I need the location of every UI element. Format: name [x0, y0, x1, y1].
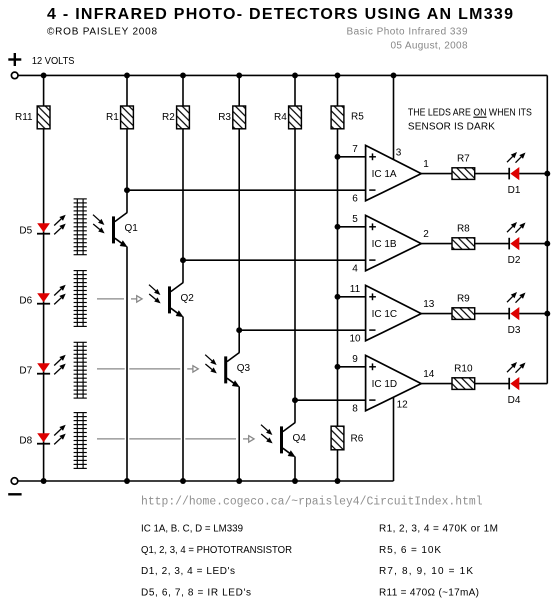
- wire Q3 emitter column lower: [238, 387, 240, 482]
- wire ground bottom rail: [18, 480, 393, 482]
- junction top rail / R5 column: [335, 72, 341, 78]
- resistor R4: [289, 106, 302, 129]
- junction right rail / D3: [544, 311, 550, 317]
- svg-text:R11 = 470Ω (~17mA): R11 = 470Ω (~17mA): [379, 587, 479, 598]
- svg-text:05 August, 2008: 05 August, 2008: [391, 40, 468, 51]
- LED D2: [509, 237, 519, 250]
- light path line row 4: [97, 438, 236, 440]
- junction top rail / R3 column: [236, 72, 242, 78]
- svg-text:D5: D5: [19, 226, 32, 237]
- svg-text:D8: D8: [19, 436, 32, 447]
- wire - input IC1B: [183, 259, 366, 261]
- svg-text:3: 3: [396, 147, 402, 158]
- wire R9 to D3: [475, 313, 510, 315]
- svg-text:D1: D1: [508, 185, 521, 196]
- resistor R11: [37, 106, 50, 129]
- LED D3: [509, 307, 519, 320]
- op-amp IC 1B: [366, 215, 422, 270]
- junction Q3 collector / comparator input: [236, 327, 242, 333]
- transistor Q2 (phototransistor): [170, 283, 184, 318]
- junction right rail / D2: [544, 241, 550, 247]
- svg-text:12 VOLTS: 12 VOLTS: [32, 56, 75, 67]
- svg-text:D3: D3: [508, 325, 521, 336]
- D3 emission arrows: [507, 292, 526, 303]
- svg-text:Q1, 2, 3, 4 = PHOTOTRANSISTOR: Q1, 2, 3, 4 = PHOTOTRANSISTOR: [141, 545, 292, 556]
- D4 emission arrows: [507, 362, 526, 373]
- svg-text:R7: R7: [457, 153, 470, 164]
- D8 emission arrows: [54, 425, 65, 445]
- wire R2 column upper: [182, 75, 184, 282]
- svg-text:Q4: Q4: [293, 433, 307, 444]
- svg-text:1: 1: [423, 159, 429, 170]
- D6 emission arrows: [54, 285, 65, 305]
- resistor R5: [331, 106, 344, 129]
- positive supply terminal + symbol: [8, 53, 21, 66]
- svg-text:R3: R3: [218, 112, 231, 123]
- LED D1: [509, 167, 519, 180]
- svg-text:7: 7: [352, 144, 358, 155]
- svg-text:Q3: Q3: [237, 363, 251, 374]
- IC 1A - input sign: [369, 189, 375, 191]
- light barrier (track) for row 2: [74, 271, 87, 327]
- wire R1 column upper: [126, 75, 128, 212]
- wire D4 to supply rail: [519, 383, 547, 385]
- junction bottom rail / R6 column: [335, 478, 341, 484]
- D5 emission arrows: [54, 215, 65, 235]
- op-amp IC 1A: [366, 145, 422, 200]
- wire - input IC1A: [127, 189, 366, 191]
- junction bottom rail / Q1 column: [124, 478, 130, 484]
- svg-text:R8: R8: [457, 223, 470, 234]
- svg-text:R5, 6 = 10K: R5, 6 = 10K: [379, 545, 441, 556]
- svg-text:10: 10: [349, 333, 361, 344]
- svg-text:IC 1D: IC 1D: [372, 379, 398, 390]
- svg-text:IC 1C: IC 1C: [372, 309, 398, 320]
- svg-text:R1, 2, 3, 4 = 470K or 1M: R1, 2, 3, 4 = 470K or 1M: [379, 524, 498, 535]
- positive terminal circle: [11, 72, 18, 79]
- wire reference column: [337, 75, 339, 481]
- resistor R10: [452, 378, 475, 390]
- junction Q4 collector / comparator input: [292, 397, 298, 403]
- svg-text:12: 12: [397, 399, 409, 410]
- svg-text:D4: D4: [508, 395, 521, 406]
- svg-text:R5: R5: [351, 111, 364, 122]
- svg-text:2: 2: [423, 229, 429, 240]
- svg-text:R2: R2: [162, 112, 175, 123]
- wire D3 to supply rail: [519, 313, 547, 315]
- junction bottom rail / Q2 column: [180, 478, 186, 484]
- svg-text:D5, 6, 7, 8 = IR LED's: D5, 6, 7, 8 = IR LED's: [141, 587, 251, 598]
- light path line row 2: [97, 298, 124, 300]
- wire R10 to D4: [475, 383, 510, 385]
- junction top rail / R11 column: [41, 72, 47, 78]
- IR LED D7: [37, 363, 50, 374]
- junction bottom rail / Q4 column: [292, 478, 298, 484]
- resistor R7: [452, 168, 475, 180]
- wire + input IC1A: [338, 156, 366, 158]
- junction bottom rail / Q3 column: [236, 478, 242, 484]
- wire + input IC1B: [338, 226, 366, 228]
- junction reference / IC1B + input: [335, 224, 341, 230]
- wire LED supply right rail: [546, 75, 548, 383]
- resistor R3: [233, 106, 246, 129]
- wire pin 3 V+ supply: [393, 75, 395, 160]
- svg-text:D6: D6: [19, 296, 32, 307]
- svg-text:8: 8: [352, 403, 358, 414]
- light path arrow row 4: [243, 436, 254, 442]
- wire R4 column upper: [294, 75, 296, 422]
- wire Q4 emitter column lower: [294, 457, 296, 482]
- Q3 incident light arrows: [205, 355, 217, 374]
- wire R7 to D1: [475, 173, 510, 175]
- light barrier (track) for row 1: [74, 199, 87, 255]
- svg-text:9: 9: [352, 354, 358, 365]
- svg-text:R11: R11: [15, 112, 33, 123]
- transistor Q3 (phototransistor): [226, 353, 240, 388]
- svg-text:4 - INFRARED PHOTO- DETECTORS: 4 - INFRARED PHOTO- DETECTORS USING AN L…: [47, 6, 513, 23]
- svg-text:Basic Photo Infrared 339: Basic Photo Infrared 339: [347, 26, 468, 37]
- wire IC 1C output: [421, 313, 452, 315]
- Q2 incident light arrows: [149, 285, 161, 304]
- IC 1D + input sign: [369, 363, 376, 370]
- svg-text:SENSOR IS DARK: SENSOR IS DARK: [408, 121, 495, 132]
- wire Q1 emitter column lower: [126, 247, 128, 482]
- svg-text:R6: R6: [351, 433, 364, 444]
- svg-text:11: 11: [350, 284, 361, 295]
- IR LED D8: [37, 433, 50, 444]
- svg-text:R9: R9: [457, 293, 470, 304]
- D7 emission arrows: [54, 355, 65, 375]
- junction Q1 collector / comparator input: [124, 187, 130, 193]
- svg-text:6: 6: [352, 193, 358, 204]
- junction Q2 collector / comparator input: [180, 257, 186, 263]
- wire pin 12 ground: [393, 397, 395, 482]
- transistor Q1 (phototransistor): [114, 213, 128, 248]
- IR LED D6: [37, 293, 50, 304]
- underline for ON: [473, 116, 486, 118]
- svg-text:©ROB PAISLEY 2008: ©ROB PAISLEY 2008: [47, 26, 157, 37]
- svg-text:13: 13: [423, 299, 435, 310]
- IC 1C - input sign: [369, 329, 375, 331]
- junction top rail / pin 3 column: [391, 72, 397, 78]
- D2 emission arrows: [507, 222, 526, 233]
- light barrier (track) for row 3: [74, 342, 87, 398]
- transistor Q4 (phototransistor): [282, 423, 296, 458]
- light path arrow row 3: [187, 366, 198, 372]
- wire IC 1B output: [421, 243, 452, 245]
- op-amp IC 1D: [366, 355, 422, 410]
- resistor R8: [452, 238, 475, 250]
- junction reference / IC1A + input: [335, 154, 341, 160]
- wire + input IC1C: [338, 296, 366, 298]
- svg-text:IC 1B: IC 1B: [372, 239, 397, 250]
- IC 1B + input sign: [369, 223, 376, 230]
- svg-text:D2: D2: [508, 255, 521, 266]
- IC 1C + input sign: [369, 293, 376, 300]
- svg-text:4: 4: [352, 263, 358, 274]
- svg-text:R1: R1: [106, 112, 119, 123]
- wire +12V top rail: [19, 74, 548, 76]
- svg-text:R10: R10: [454, 363, 473, 374]
- Q1 incident light arrows: [93, 215, 105, 234]
- wire Q2 emitter column lower: [182, 317, 184, 482]
- negative terminal - symbol: [8, 493, 21, 495]
- wire IC 1A output: [421, 173, 452, 175]
- Q4 incident light arrows: [261, 425, 273, 444]
- IR LED D5: [37, 223, 50, 234]
- svg-text:R4: R4: [274, 112, 287, 123]
- svg-text:14: 14: [423, 369, 435, 380]
- D1 emission arrows: [507, 152, 526, 163]
- junction reference / IC1C + input: [335, 294, 341, 300]
- light path line row 3: [97, 368, 180, 370]
- wire R3 column upper: [238, 75, 240, 352]
- LED D4: [509, 377, 519, 390]
- svg-text:Q1: Q1: [125, 223, 139, 234]
- svg-text:D7: D7: [19, 366, 32, 377]
- resistor R2: [177, 106, 190, 129]
- svg-text:Q2: Q2: [181, 293, 195, 304]
- light barrier (track) for row 4: [74, 413, 87, 469]
- svg-text:IC 1A: IC 1A: [372, 169, 397, 180]
- junction reference / IC1D + input: [335, 364, 341, 370]
- junction top rail / R4 column: [292, 72, 298, 78]
- light path arrow row 2: [131, 296, 142, 302]
- wire LED column: [43, 75, 45, 481]
- wire + input IC1D: [338, 366, 366, 368]
- resistor R6: [331, 426, 344, 450]
- svg-text:http://home.cogeco.ca/~rpaisle: http://home.cogeco.ca/~rpaisley4/Circuit…: [141, 496, 483, 509]
- wire D1 to supply rail: [519, 173, 547, 175]
- junction top rail / R2 column: [180, 72, 186, 78]
- wire D2 to supply rail: [519, 243, 547, 245]
- junction bottom rail / LED string column: [41, 478, 47, 484]
- resistor R9: [452, 308, 475, 320]
- IC 1D - input sign: [369, 399, 375, 401]
- svg-text:D1, 2, 3, 4 = LED's: D1, 2, 3, 4 = LED's: [141, 566, 235, 577]
- junction right rail / D1: [544, 171, 550, 177]
- negative supply terminal circle: [11, 478, 18, 485]
- wire R8 to D2: [475, 243, 510, 245]
- resistor R1: [121, 106, 134, 129]
- wire IC 1D output: [421, 383, 452, 385]
- wire - input IC1D: [295, 399, 366, 401]
- wire - input IC1C: [239, 329, 365, 331]
- svg-text:THE LEDS ARE ON WHEN ITS: THE LEDS ARE ON WHEN ITS: [408, 107, 532, 118]
- svg-text:IC 1A, B. C, D = LM339: IC 1A, B. C, D = LM339: [141, 524, 243, 535]
- IC 1B - input sign: [369, 259, 375, 261]
- IC 1A + input sign: [369, 153, 376, 160]
- junction top rail / R1 column: [124, 72, 130, 78]
- op-amp IC 1C: [366, 285, 422, 340]
- svg-text:5: 5: [352, 214, 358, 225]
